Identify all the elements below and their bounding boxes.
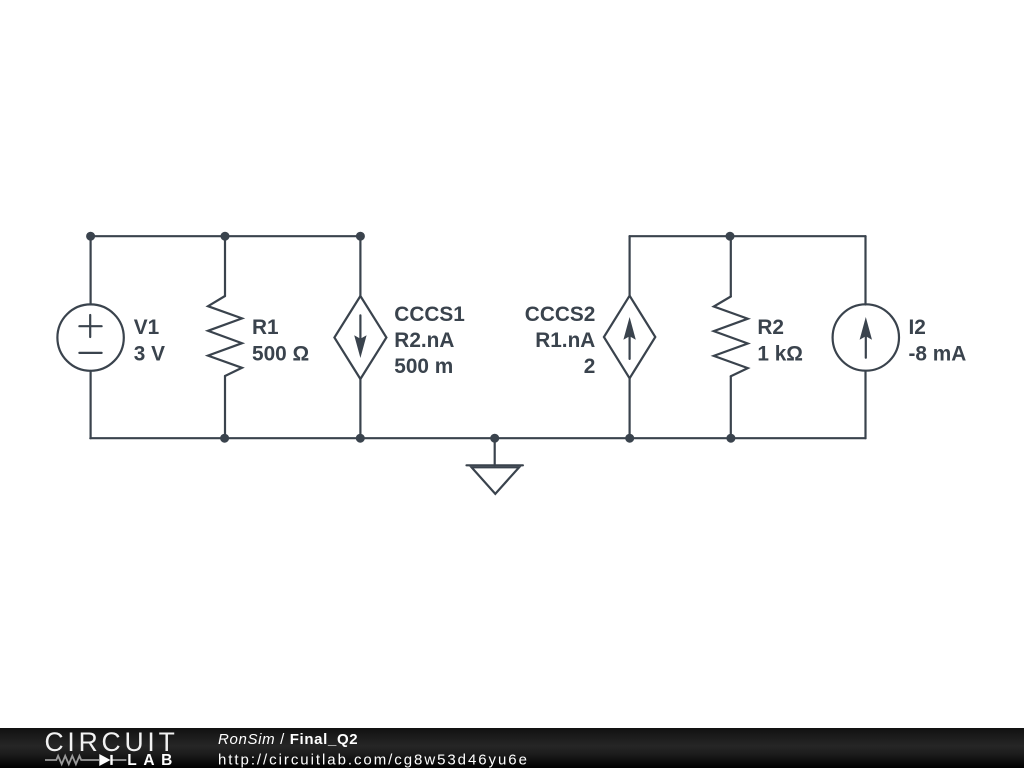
- svg-text:R1: R1: [252, 316, 279, 339]
- svg-text:V1: V1: [134, 316, 159, 339]
- svg-text:R2.nA: R2.nA: [394, 329, 454, 352]
- svg-text:http://circuitlab.com/cg8w53d4: http://circuitlab.com/cg8w53d46yu6e: [218, 751, 529, 768]
- svg-text:2: 2: [584, 355, 596, 378]
- svg-text:R2: R2: [757, 316, 784, 339]
- svg-text:R1.nA: R1.nA: [535, 329, 595, 352]
- svg-text:RonSim / Final_Q2: RonSim / Final_Q2: [218, 731, 358, 748]
- svg-text:I2: I2: [909, 316, 926, 339]
- svg-text:500 m: 500 m: [394, 355, 453, 378]
- svg-text:LAB: LAB: [127, 752, 179, 768]
- svg-text:-8 mA: -8 mA: [909, 342, 967, 365]
- svg-text:1 kΩ: 1 kΩ: [757, 342, 803, 365]
- svg-text:CCCS1: CCCS1: [394, 303, 465, 326]
- svg-text:3 V: 3 V: [134, 342, 165, 365]
- svg-text:CCCS2: CCCS2: [525, 303, 596, 326]
- svg-text:500 Ω: 500 Ω: [252, 342, 309, 365]
